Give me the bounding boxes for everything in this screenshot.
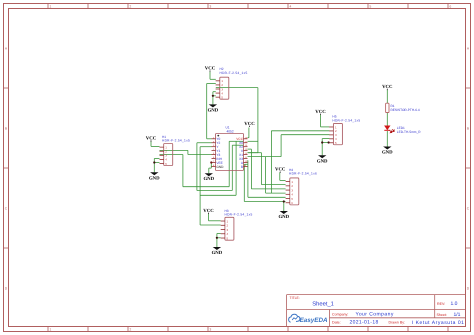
power flag VCC (U1 pin16): [244, 121, 255, 127]
svg-text:GND: GND: [212, 250, 223, 256]
power flag VCC (H5): [315, 109, 326, 115]
svg-text:2: 2: [130, 5, 132, 9]
junction H5 gnd a: [321, 141, 323, 143]
wire VCC to R1: [386, 90, 388, 103]
connector H3: [221, 217, 234, 240]
svg-text:2: 2: [130, 328, 132, 332]
svg-text:GND: GND: [317, 158, 328, 164]
svg-text:Sheet_1: Sheet_1: [312, 300, 334, 307]
wire VCC to H2 pin1: [210, 72, 216, 80]
wire H2 pin2 to U1 Y0: [207, 84, 216, 139]
svg-text:Your Company: Your Company: [356, 312, 394, 318]
svg-text:B: B: [241, 165, 243, 169]
label H1 refdes: [162, 135, 166, 139]
svg-text:1: 1: [50, 5, 52, 9]
svg-text:Date:: Date:: [332, 320, 341, 324]
ground GND (H4): [278, 211, 289, 220]
wire U1 X3 to H4 pin4: [248, 157, 286, 194]
wire VCC to H3 pin1: [209, 214, 221, 221]
junction H5 gnd b: [328, 141, 330, 143]
junction H4 pin6 gnd: [283, 200, 285, 202]
svg-text:6: 6: [450, 5, 452, 9]
wire R1 to LED1: [386, 113, 388, 126]
label H1 value HDR-F-2.54_1x5: [162, 139, 190, 143]
label H4 refdes: [289, 168, 293, 172]
svg-text:HDR-F-2.54_1x5: HDR-F-2.54_1x5: [162, 139, 190, 143]
label LED1 refdes: [397, 126, 405, 130]
svg-text:GND: GND: [149, 175, 160, 181]
wire H3 pins 4,5 to GND: [217, 234, 221, 248]
label H5 value HDR-F-2.54_1x5: [332, 119, 360, 123]
svg-text:Sheet:: Sheet:: [437, 313, 447, 317]
svg-text:4052: 4052: [227, 129, 234, 133]
EasyEDA logo: [289, 314, 328, 324]
wire U1 A to H4 pin5: [248, 160, 286, 197]
wire U1 VEE,GND to GND: [209, 163, 212, 174]
svg-text:1/1: 1/1: [454, 312, 461, 318]
wire H1 pins 4,5 to GND: [154, 159, 159, 173]
junction U1 VEE: [210, 161, 212, 163]
svg-text:TITLE:: TITLE:: [290, 296, 300, 300]
svg-text:I Ketut Aryasuta 01: I Ketut Aryasuta 01: [412, 320, 465, 326]
svg-text:HDR-F-2.54_1x5: HDR-F-2.54_1x5: [225, 213, 253, 217]
wire U1 Y2 to U1 X2 bus: [197, 143, 244, 191]
svg-text:2021-01-18: 2021-01-18: [350, 320, 379, 326]
wire VCC to H4 pin1: [280, 172, 286, 180]
power flag VCC (H2): [205, 66, 216, 72]
power flag VCC (H3): [203, 208, 214, 214]
ground GND (LED1): [382, 147, 393, 156]
label H2 value HDR-F-2.54_1x5: [220, 71, 248, 75]
wire H1 pin3 to U1 X0 bus: [160, 141, 244, 186]
svg-text:GND: GND: [278, 214, 289, 220]
resistor R1: [386, 103, 389, 112]
ground GND (H5): [317, 155, 328, 164]
label H2 refdes: [220, 67, 224, 71]
LED D1: [384, 126, 394, 133]
power flag VCC (H4): [275, 167, 286, 173]
op-amp U1 4052 multiplexer: [212, 134, 249, 171]
connector H1: [160, 144, 173, 166]
ground GND (H3): [212, 247, 223, 256]
label LED1 value LED-TH-5mm_R: [397, 130, 421, 134]
wire LED1 to GND: [386, 131, 388, 147]
junction H1 gnd: [153, 161, 155, 163]
wire U1 B to H4 pin6 and GND: [244, 164, 285, 211]
junction H3 gnd: [216, 237, 218, 239]
wire U1 VCC pin16 to VCC flag: [248, 128, 249, 138]
svg-text:GND: GND: [216, 165, 224, 169]
svg-text:RESISTOR-PTH-6.4: RESISTOR-PTH-6.4: [391, 108, 420, 112]
svg-text:1: 1: [50, 328, 52, 332]
wire U1 X to H4 pin3: [248, 149, 286, 189]
wire H2 pins 4,5 to GND: [213, 92, 216, 105]
svg-text:REV:: REV:: [437, 302, 445, 306]
svg-text:1.0: 1.0: [451, 301, 458, 307]
svg-text:GND: GND: [203, 176, 214, 182]
connector H4: [286, 178, 299, 205]
connector H5: [329, 123, 342, 145]
junction H2 gnd: [212, 95, 214, 97]
label U1 refdes: [226, 126, 230, 130]
svg-text:Drawn By:: Drawn By:: [389, 321, 406, 325]
power flag VCC (R1): [382, 84, 393, 90]
wire U1 X1 to H4 pin2: [248, 153, 286, 185]
ground GND (H2): [208, 104, 219, 113]
label R1 refdes: [391, 104, 395, 108]
svg-text:3: 3: [210, 328, 212, 332]
wire H5 pin3 to U1 X3: [281, 135, 329, 157]
svg-text:EasyEDA: EasyEDA: [300, 317, 328, 324]
label H3 refdes: [225, 209, 229, 213]
connector H2: [216, 77, 229, 99]
svg-text:HDR-F-2.54_1x5: HDR-F-2.54_1x5: [332, 119, 360, 123]
svg-text:LED-TH-5mm_R: LED-TH-5mm_R: [397, 130, 421, 134]
ground GND (H1): [149, 172, 160, 181]
wire H2 pin3 to U1 X0: [216, 88, 258, 153]
svg-text:5: 5: [370, 5, 372, 9]
wire H5 pin2 to H4 pin4: [271, 131, 329, 193]
label U1 value 4052: [227, 129, 234, 133]
ground GND (U1): [203, 173, 214, 182]
svg-text:4: 4: [290, 5, 292, 9]
svg-text:HDR-F-2.54_1x5: HDR-F-2.54_1x5: [220, 71, 248, 75]
wire VCC to H5 pin1: [321, 115, 330, 127]
svg-text:HDR-F-2.54_1x6: HDR-F-2.54_1x6: [289, 172, 317, 176]
svg-text:Company:: Company:: [332, 312, 348, 316]
wire H5 pins 4,5 to GND: [322, 139, 329, 156]
title block: [287, 295, 466, 327]
power flag VCC (H1): [146, 136, 157, 142]
svg-text:3: 3: [210, 5, 212, 9]
label H4 value HDR-F-2.54_1x6: [289, 172, 317, 176]
svg-text:GND: GND: [382, 150, 393, 156]
wire H1 pin2 to U1 Y3: [160, 150, 212, 154]
label H5 refdes: [332, 115, 336, 119]
wire VCC to H1 pin1: [151, 141, 160, 146]
svg-text:GND: GND: [208, 107, 219, 113]
wire U1 Y to H3 pin2 bus: [200, 141, 236, 225]
label H3 value HDR-F-2.54_1x5: [225, 213, 253, 217]
label R1 value RESISTOR-PTH-6.4: [391, 108, 420, 112]
